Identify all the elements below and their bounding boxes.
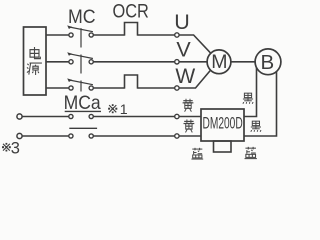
OCR heater element 3	[125, 75, 138, 89]
terminal yellow A	[175, 114, 179, 118]
power source box 电源	[24, 27, 47, 95]
svg-text:MC: MC	[68, 5, 96, 27]
wire brake lead black right: B down to rectifier	[244, 72, 276, 137]
wire L1: OCR to terminal U	[138, 34, 175, 36]
contactor MC pole3 left terminal	[69, 86, 73, 90]
label 黄 #1	[183, 99, 194, 112]
rectifier DM200D box	[201, 109, 244, 141]
label 蓝 #2	[245, 147, 257, 159]
wire L1: source to MC pole1	[46, 34, 69, 36]
contactor MC pole2 blade with arrowhead	[67, 52, 93, 58]
label 源	[27, 63, 42, 75]
contact MCa-B left terminal	[69, 134, 73, 138]
terminal yellow B	[175, 134, 179, 138]
svg-text:B: B	[261, 51, 275, 74]
label 蓝 #1	[191, 148, 203, 159]
control wire A to yellow terminal	[93, 116, 174, 118]
wire V to motor M	[179, 61, 207, 63]
svg-text:3: 3	[11, 139, 20, 157]
label 黑 #2	[251, 121, 261, 132]
contactor MC pole1 right terminal	[89, 33, 93, 37]
control wire A left end terminal	[17, 114, 22, 119]
wire brake lead black left: B down to rectifier	[244, 68, 256, 117]
svg-text:DM200D: DM200D	[202, 113, 242, 132]
wire L3: source to MC pole3	[46, 87, 69, 89]
contactor MC pole3 blade with arrowhead	[67, 78, 93, 84]
contactor MC pole2 right terminal	[89, 60, 93, 64]
wire M to B	[231, 61, 255, 63]
terminal W	[175, 86, 179, 90]
svg-text:V: V	[176, 38, 191, 62]
svg-text:U: U	[174, 10, 190, 34]
terminal V	[175, 60, 179, 64]
svg-text:W: W	[175, 65, 195, 88]
label ※1	[108, 104, 117, 113]
wire A into rectifier	[179, 116, 201, 118]
label 电	[30, 47, 40, 59]
label 黑 #1	[243, 93, 253, 104]
contactor MC pole3 right terminal	[89, 86, 93, 90]
label MC	[68, 5, 96, 27]
contact MCa-A right terminal	[89, 114, 93, 118]
label ※3	[2, 143, 11, 152]
motor M circle	[207, 50, 231, 74]
control wire B to yellow terminal	[93, 135, 174, 137]
wire L2: MC to terminal V	[93, 61, 174, 63]
contact MCa-A bridge bar	[65, 110, 101, 112]
control wire A segment to MCa	[22, 116, 69, 118]
svg-text:MCa: MCa	[64, 91, 102, 113]
label OCR	[113, 0, 149, 22]
svg-text:M: M	[211, 51, 227, 73]
contactor MC pole1 blade with arrowhead	[67, 25, 93, 31]
contactor MC pole2 left terminal	[69, 60, 73, 64]
contact MCa-B bridge bar	[69, 127, 97, 129]
contact MCa-B right terminal	[89, 134, 93, 138]
wire L3: OCR to terminal W	[138, 87, 175, 89]
wire U to motor M	[179, 35, 211, 54]
svg-text:OCR: OCR	[113, 0, 149, 22]
terminal U	[175, 33, 179, 37]
svg-text:1: 1	[120, 102, 128, 118]
contactor MC pole1 left terminal	[69, 33, 73, 37]
wire W to motor M	[179, 70, 211, 88]
contactor MC mechanical link (dashed)	[80, 28, 82, 91]
wire B into rectifier	[179, 135, 201, 137]
contact MCa-A left terminal	[69, 114, 73, 118]
OCR heater element 1	[125, 23, 138, 36]
control wire B left end terminal	[17, 133, 22, 138]
rectifier bottom terminal tab	[214, 141, 232, 152]
wire L1: MC to OCR heater1	[93, 34, 124, 36]
label 黄 #2	[184, 119, 195, 132]
brake B circle	[255, 49, 281, 75]
control wire B segment to MCa	[22, 135, 69, 137]
wire L2: source to MC pole2	[46, 61, 69, 63]
label MCa	[64, 91, 102, 113]
wire L3: MC to OCR heater3	[93, 87, 124, 89]
